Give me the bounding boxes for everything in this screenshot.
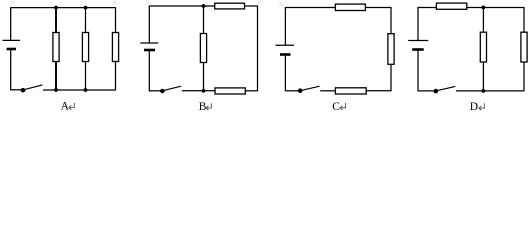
svg-text:A: A [61, 101, 70, 113]
resistor R2 top lead [85, 8, 87, 33]
svg-text:B: B [199, 101, 207, 113]
svg-text:C: C [332, 101, 340, 113]
resistor R12 body [521, 32, 527, 62]
wire C left upper (to battery) [284, 7, 286, 45]
wire D top left [418, 7, 436, 9]
switch S1 pivot [21, 88, 26, 93]
wire B top left [149, 5, 214, 7]
paragraph mark after A [69, 103, 75, 110]
wire D left upper (to battery) [417, 7, 419, 41]
battery G2 long plate [140, 42, 158, 44]
node B1 (top junction) [202, 4, 206, 8]
node A2 (bottom junction of R1) [54, 88, 58, 92]
wire C right upper [390, 7, 392, 34]
resistor R1 body [53, 33, 59, 62]
resistor R4 body (top) [215, 3, 245, 9]
wire B top right [245, 5, 258, 7]
resistor R6 body (bottom) [215, 88, 245, 94]
wire C top right [365, 7, 391, 9]
anchor mark near A top-left [11, 1, 15, 5]
switch S3 pivot [298, 88, 303, 93]
resistor R5 top lead (vertical middle) [203, 6, 205, 34]
wire C left lower [284, 55, 286, 92]
wire C bottom right [366, 90, 391, 92]
wire A top [11, 7, 116, 9]
anchor mark near B top-right [258, 1, 262, 5]
node A4 (bottom junction of R2) [84, 88, 88, 92]
battery G3 long plate [276, 44, 295, 46]
wire C bottom left (to switch pivot) [285, 90, 300, 92]
wire B bottom middle (contact to junction) [182, 90, 215, 92]
paragraph mark after C [340, 103, 346, 110]
wire A bottom left (to switch pivot) [11, 89, 23, 91]
resistor R1 top lead (thick) [55, 8, 57, 33]
node A1 (top junction of R1) [54, 6, 58, 10]
wire B bottom left (to switch pivot) [149, 90, 162, 92]
paragraph mark after B [206, 103, 212, 110]
svg-text:D: D [470, 101, 478, 113]
resistor R10 body (top) [436, 3, 466, 9]
switch S4 pivot [434, 89, 439, 94]
wire A bottom right (contact to right corner) [43, 89, 116, 91]
wire B right edge [257, 6, 259, 92]
node D1 (top junction) [482, 6, 486, 10]
resistor R9 body (bottom) [335, 88, 366, 94]
resistor R11 top lead (vertical middle) [482, 8, 484, 33]
resistor R1 bottom lead (thick) [55, 62, 57, 91]
resistor R7 body (top) [335, 4, 365, 10]
battery G3 short plate [280, 53, 291, 56]
paragraph mark after D [479, 103, 485, 110]
switch S2 pivot [160, 89, 165, 94]
switch S2 lever [162, 86, 181, 91]
resistor R3 bottom lead (right edge) [115, 62, 117, 91]
resistor R8 body (right) [388, 34, 394, 65]
switch S4 lever [436, 86, 456, 91]
battery G1 long plate [3, 39, 21, 41]
anchor mark near A top-right [113, 1, 117, 5]
resistor R5 bottom lead [203, 63, 205, 91]
resistor R11 bottom lead [482, 62, 484, 91]
node A3 (top junction of R2) [84, 6, 88, 10]
switch S3 lever [300, 86, 319, 91]
wire B left lower [148, 50, 150, 91]
wire C top left [285, 7, 335, 9]
resistor R2 bottom lead [85, 62, 87, 91]
resistor R3 top lead (right edge) [115, 7, 117, 33]
battery G4 short plate [412, 48, 424, 51]
node B2 (bottom junction) [202, 89, 206, 93]
wire C bottom middle (contact to resistor) [320, 90, 335, 92]
wire B bottom right [245, 90, 257, 92]
wire A left upper (to battery) [10, 7, 12, 40]
resistor R2 body [82, 33, 88, 62]
node D2 (bottom junction) [482, 89, 486, 93]
wire D left lower [417, 50, 419, 92]
battery G1 short plate [7, 48, 17, 51]
wire C right lower [390, 64, 392, 91]
resistor R11 body [480, 32, 486, 62]
wire D bottom right (contact to corner) [456, 90, 524, 92]
anchor mark near C top-left [280, 2, 284, 6]
resistor R12 top lead (right edge) [523, 7, 525, 33]
wire D top right (body to corner) [467, 7, 524, 9]
wire A left lower (battery to bottom corner) [10, 49, 12, 91]
wire D bottom left (to switch pivot) [418, 90, 436, 92]
resistor R12 bottom lead (right edge) [523, 62, 525, 91]
switch S1 lever [23, 85, 42, 90]
anchor mark near B top-left [146, 1, 150, 5]
resistor R5 body [200, 34, 206, 63]
battery G4 long plate [408, 40, 428, 42]
wire B left upper (to battery) [148, 6, 150, 44]
battery G2 short plate [144, 49, 155, 52]
resistor R3 body [112, 33, 118, 62]
